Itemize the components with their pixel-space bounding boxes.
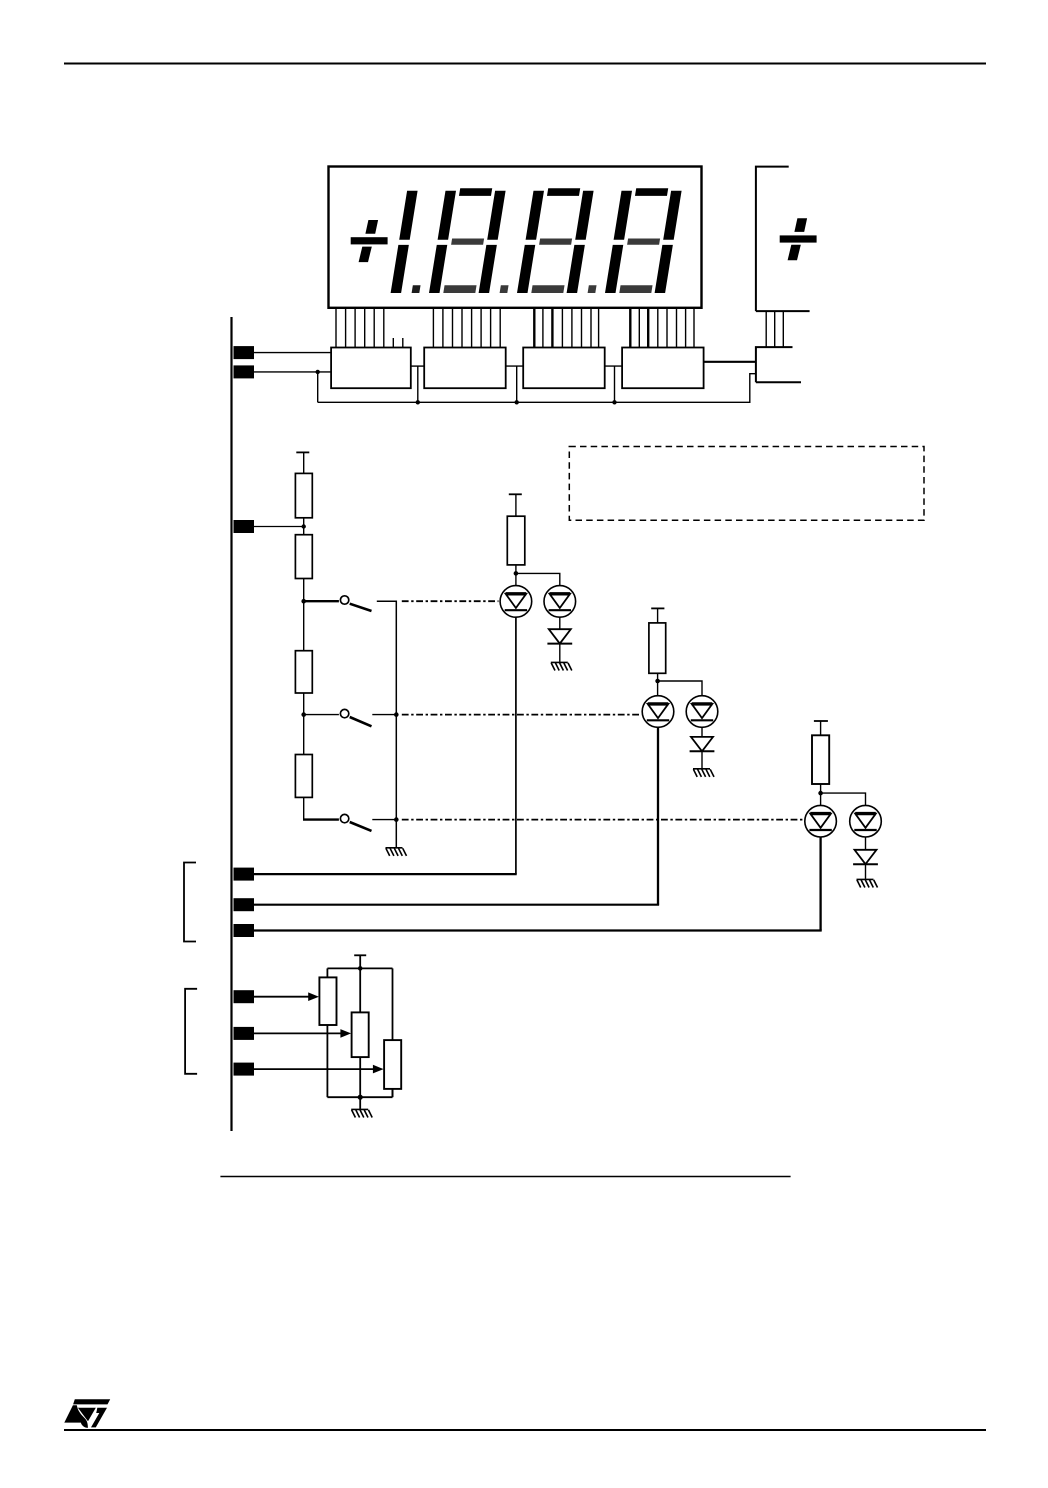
LED D2a: [642, 696, 674, 728]
wire top rail: [327, 967, 392, 969]
dashed note box: [569, 447, 924, 521]
display pins group 3: [534, 308, 598, 348]
wire: [392, 1089, 394, 1097]
wire arrow D: [254, 996, 310, 998]
wire: [303, 693, 305, 755]
aux connector box: [756, 347, 801, 382]
wire: [359, 1097, 361, 1109]
wire U2-U3 drop: [516, 366, 518, 402]
wire: [865, 864, 867, 879]
pin ref: [234, 520, 255, 533]
switch SW3: [303, 814, 372, 831]
digit 8 (tens): [526, 191, 544, 240]
node g3: [818, 791, 823, 796]
decimal point 1: [412, 285, 421, 293]
wire branch g3: [821, 793, 866, 805]
wire branch g2: [658, 681, 702, 696]
ground g3: [857, 879, 878, 887]
display pins group 2: [433, 308, 500, 348]
wire A: [254, 873, 517, 875]
aux display pins: [766, 311, 783, 347]
pin C: [234, 924, 255, 937]
wire: [657, 608, 659, 623]
ground pots: [351, 1109, 372, 1117]
decimal point 3: [588, 285, 597, 293]
driver U1: [331, 348, 411, 389]
vertical bus: [230, 317, 232, 1131]
LED D1a: [500, 586, 532, 618]
node ref: [302, 524, 306, 528]
LED D1b: [544, 586, 576, 618]
bracket ABC: [184, 863, 196, 942]
pin data: [234, 365, 255, 378]
wire U3-U4 drop: [614, 366, 616, 402]
trimmer P1: [319, 977, 336, 1025]
pin F: [234, 1063, 255, 1076]
wire data drop: [317, 372, 319, 402]
wire B: [254, 904, 659, 906]
wire C: [254, 929, 822, 931]
figure rule: [220, 1176, 790, 1178]
resistor RL2: [649, 623, 666, 673]
wire U4 to connector: [704, 361, 756, 363]
wire: [377, 601, 397, 847]
display box: [329, 167, 702, 308]
switch SW1: [304, 596, 372, 611]
switch SW2: [304, 709, 372, 726]
supply tick RL2: [651, 607, 664, 609]
display pins group 1: [336, 308, 403, 348]
node 2: [301, 712, 306, 717]
wire ref: [254, 526, 304, 528]
wire: [865, 837, 867, 850]
aux polarity segments: [780, 218, 817, 260]
pin clock: [234, 346, 255, 359]
supply tick RL1: [509, 493, 522, 495]
diode D1c: [547, 629, 572, 643]
polarity segments: [351, 220, 388, 262]
display pins group 4: [630, 308, 694, 348]
node data junction: [316, 370, 320, 374]
node 1: [301, 599, 306, 604]
wire: [326, 968, 328, 977]
wire: [820, 784, 822, 805]
digit 1: [399, 191, 417, 240]
wire: [701, 751, 703, 768]
wire U2-U3: [506, 365, 524, 367]
resistor RL3: [812, 735, 829, 784]
wire: [303, 797, 305, 820]
LED D2b: [686, 696, 718, 728]
node bus 1: [416, 400, 420, 404]
wire: [303, 518, 305, 535]
wire return g3: [819, 837, 821, 931]
node 3b: [394, 817, 399, 822]
digit 8 (hundreds): [438, 191, 456, 240]
wire: [372, 819, 396, 821]
wire arrow F: [254, 1068, 375, 1070]
bracket DEF: [185, 989, 197, 1074]
wire: [303, 579, 305, 651]
resistor R3: [295, 651, 312, 693]
ground g1: [551, 662, 572, 670]
wire: [359, 1057, 361, 1097]
wire arrow E: [254, 1032, 342, 1034]
wire data: [254, 371, 331, 373]
resistor R1: [295, 473, 312, 517]
wire U3-U4: [605, 365, 622, 367]
wire: [326, 1025, 328, 1097]
wire: [359, 955, 361, 1012]
wire return g2: [657, 727, 659, 904]
resistor R2: [295, 535, 312, 579]
wire clock: [254, 352, 331, 354]
ground g2: [693, 769, 714, 777]
wire: [657, 673, 659, 696]
top rule: [64, 63, 986, 65]
ST logo: [64, 1399, 110, 1428]
pin D: [234, 990, 255, 1003]
wire: [392, 968, 394, 1040]
wire bottom rail: [327, 1096, 392, 1098]
diode D3c: [853, 850, 878, 864]
driver U2: [424, 348, 506, 389]
ground chain: [386, 848, 407, 856]
node 2b: [394, 712, 399, 717]
wire dash-dot row 3: [402, 819, 804, 821]
wire return g1: [515, 617, 517, 874]
digits 1888: [391, 188, 682, 293]
node bottom rail: [358, 1095, 363, 1100]
wire U1-U2 drop: [417, 366, 419, 402]
wire serial bus: [318, 374, 756, 403]
wire: [515, 494, 517, 516]
node g2: [655, 679, 660, 684]
digit 8 (units): [614, 191, 632, 240]
wire U1-U2: [411, 365, 424, 367]
trimmer P2: [352, 1012, 369, 1057]
driver U4: [622, 348, 704, 389]
supply tick RL3: [814, 720, 828, 722]
footer rule: [64, 1429, 986, 1431]
wire: [701, 727, 703, 737]
diode D2c: [690, 737, 715, 751]
node bus 2: [515, 400, 519, 404]
auxiliary display box: [756, 167, 810, 312]
LED D3a: [805, 805, 837, 837]
wire dash-dot row 2: [402, 714, 641, 716]
wire: [559, 644, 561, 662]
LED D3b: [850, 805, 882, 837]
node rail: [358, 966, 363, 971]
wire: [515, 565, 517, 586]
trimmer P3: [384, 1040, 401, 1089]
wire: [820, 721, 822, 735]
pin A: [234, 868, 255, 881]
decimal point 2: [500, 285, 509, 293]
wire: [303, 452, 305, 473]
wire: [372, 714, 396, 716]
supply tick pots: [354, 954, 366, 956]
pin E: [234, 1027, 255, 1040]
node bus 3: [612, 400, 616, 404]
resistor R4: [295, 755, 312, 798]
wire: [559, 617, 561, 629]
resistor RL1: [507, 516, 525, 565]
node g1: [514, 571, 519, 576]
supply tick R1: [296, 451, 309, 453]
wire dash-dot row 1: [402, 600, 499, 602]
driver U3: [523, 348, 605, 389]
wire branch g1: [516, 573, 560, 585]
pin B: [234, 898, 255, 911]
